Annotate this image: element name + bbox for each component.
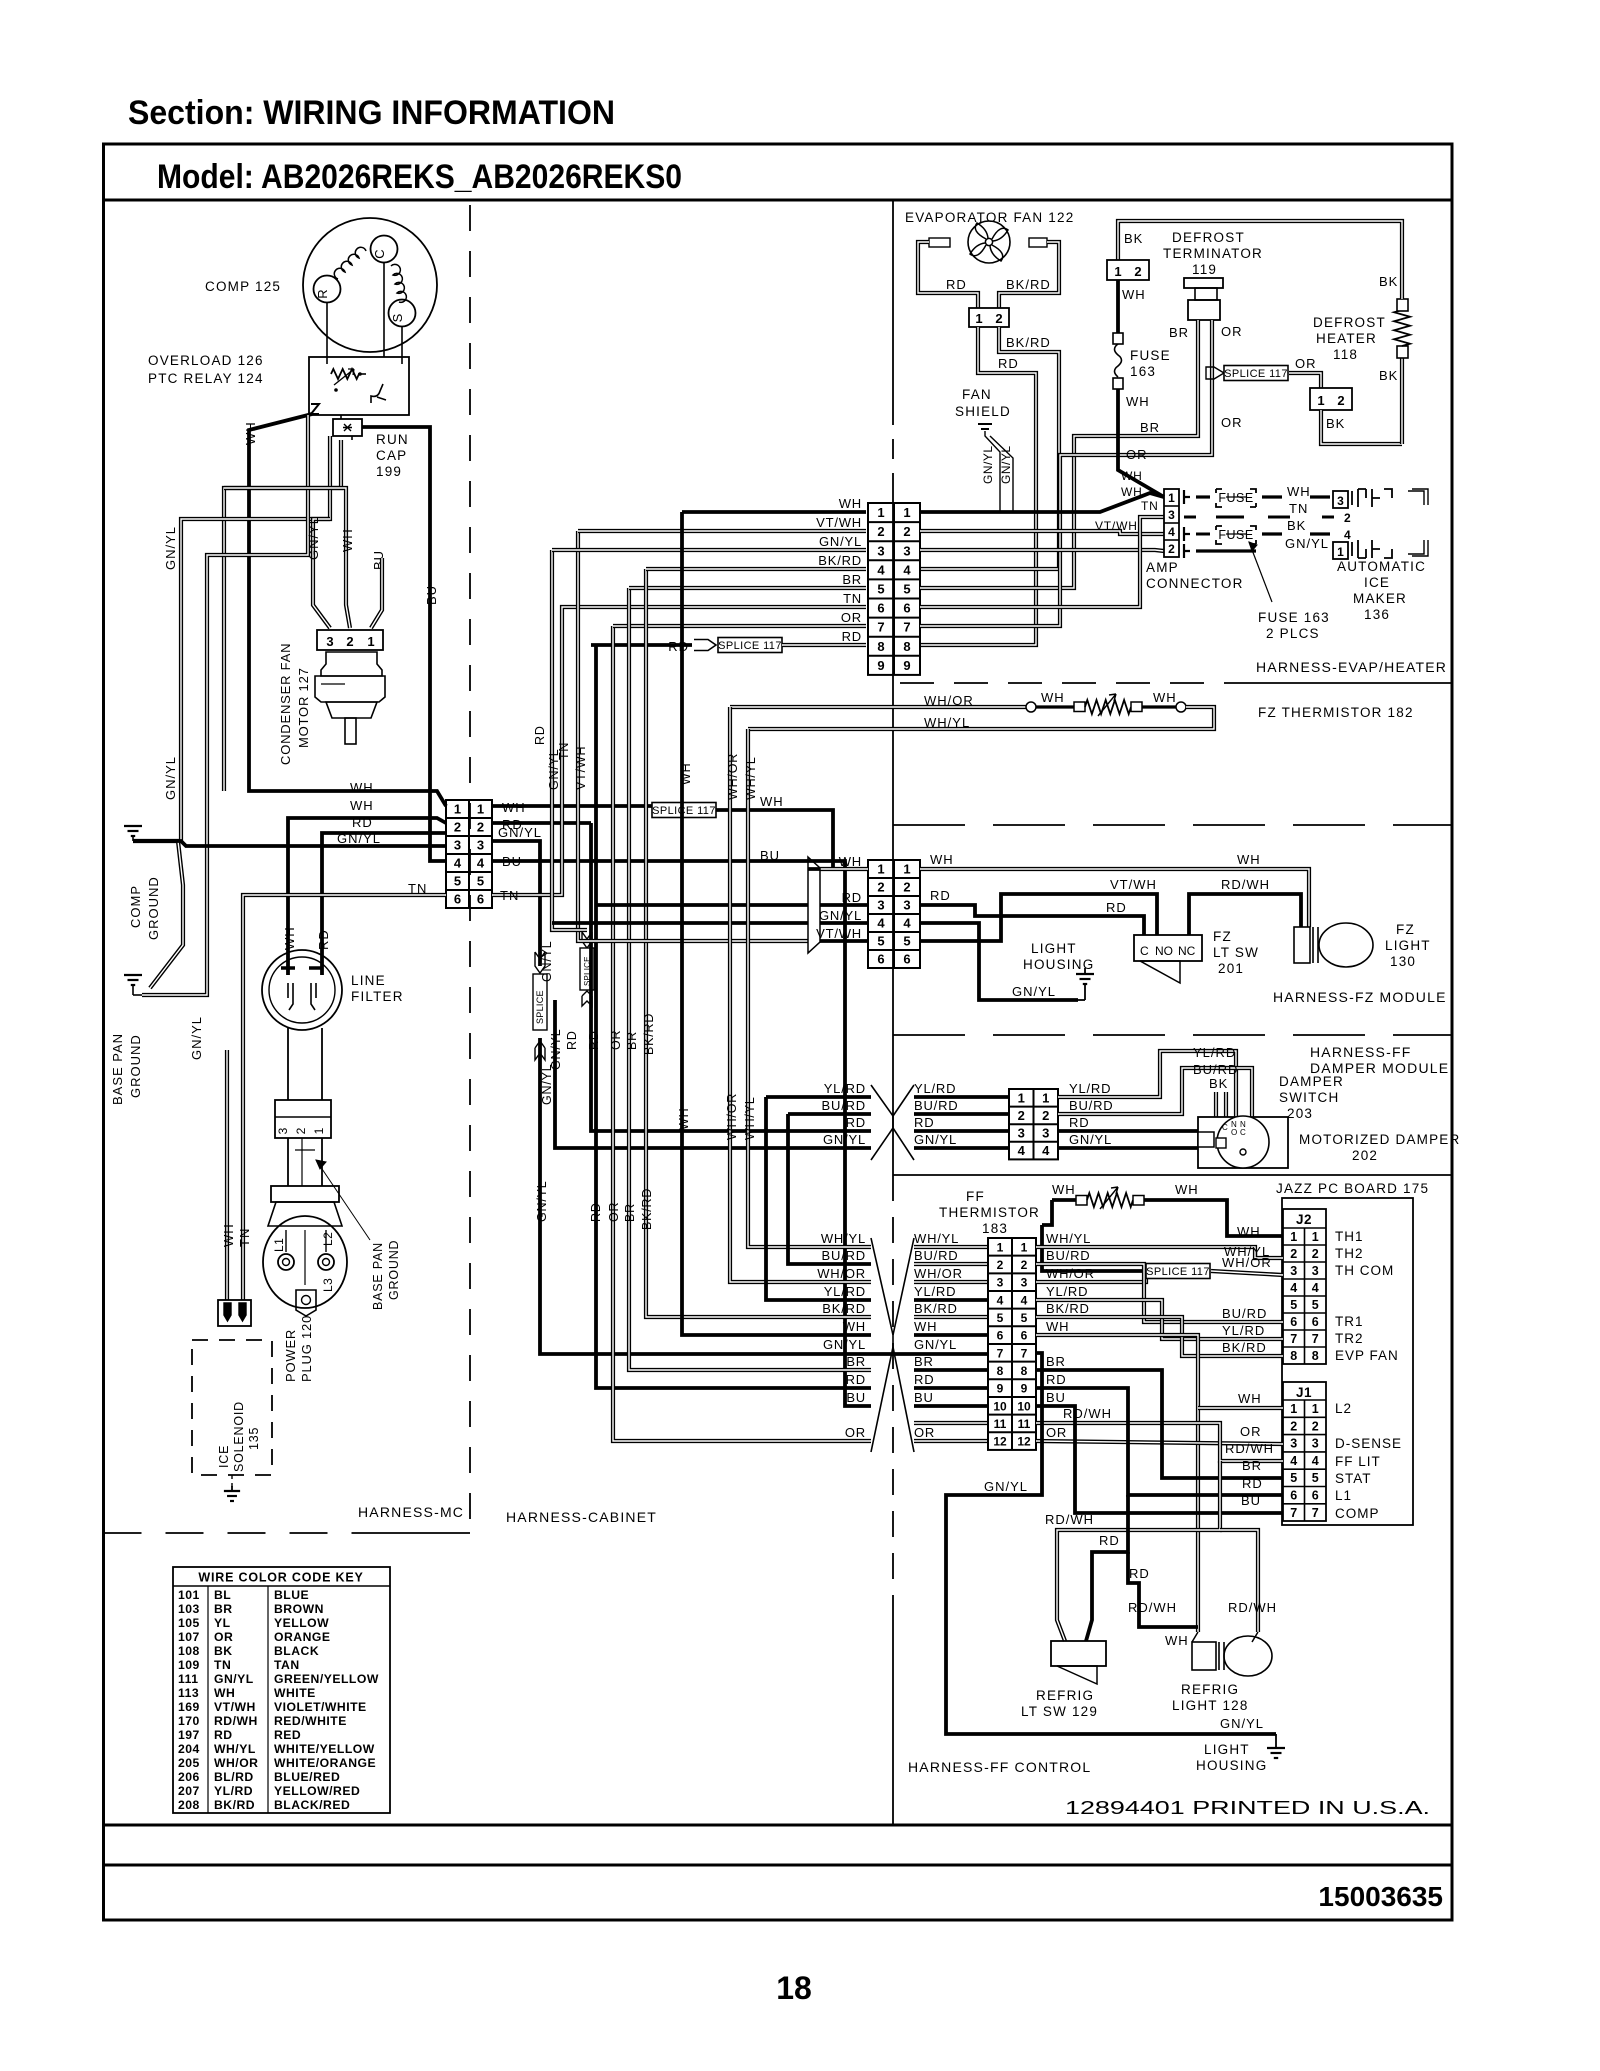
svg-text:1: 1 (903, 862, 910, 877)
svg-text:8: 8 (1021, 1364, 1028, 1378)
pennant into splice 117 (OR) (1206, 367, 1224, 379)
wire VT/WH 9-pin row2 down to FZ funnel (578, 531, 808, 941)
svg-text:108: 108 (178, 1644, 200, 1658)
svg-text:7: 7 (1312, 1506, 1319, 1520)
power plug 120 connector 3 2 1 (275, 1100, 331, 1138)
svg-text:202: 202 (1352, 1148, 1378, 1163)
svg-text:BR: BR (1242, 1458, 1262, 1473)
wire YL/RD 12-4 to J2 pin7 TR2 (1036, 1300, 1283, 1339)
svg-text:5: 5 (877, 581, 884, 596)
svg-text:YL/RD: YL/RD (914, 1284, 956, 1299)
wire TN 6-pin pin6 to 9-pin row6 (492, 607, 866, 895)
svg-text:7: 7 (903, 620, 910, 635)
wire RD refrig branch (1128, 1552, 1198, 1627)
svg-text:4: 4 (877, 562, 885, 577)
svg-text:8: 8 (997, 1364, 1004, 1378)
svg-text:5: 5 (477, 874, 484, 889)
wire BU/RD 12-2 to J2 pin6 TR1 (1036, 1264, 1283, 1322)
wire GN/YL fz pin4 to light housing ground (920, 923, 1078, 1000)
wire VT/WH fz pin5 to switch (920, 894, 1157, 941)
svg-text:GROUND: GROUND (146, 876, 161, 940)
svg-text:8: 8 (1312, 1349, 1319, 1363)
svg-text:4: 4 (877, 916, 885, 931)
svg-text:BK/RD: BK/RD (642, 1013, 656, 1055)
svg-text:L1: L1 (272, 1238, 286, 1252)
svg-text:5: 5 (903, 934, 910, 949)
svg-text:BLUE/RED: BLUE/RED (274, 1770, 340, 1784)
svg-text:OVERLOAD 126: OVERLOAD 126 (148, 353, 264, 368)
line filter (262, 950, 342, 1030)
svg-text:109: 109 (178, 1658, 200, 1672)
svg-text:S: S (390, 313, 405, 322)
svg-text:GROUND: GROUND (387, 1240, 401, 1300)
svg-text:MAKER: MAKER (1353, 591, 1407, 606)
svg-text:SPLICE 117: SPLICE 117 (718, 640, 782, 652)
svg-text:2: 2 (1312, 1419, 1319, 1433)
svg-text:3: 3 (1042, 1126, 1049, 1141)
svg-text:2: 2 (995, 311, 1002, 326)
svg-text:BR: BR (1046, 1354, 1066, 1369)
svg-text:WH: WH (760, 794, 784, 809)
svg-text:2 PLCS: 2 PLCS (1266, 626, 1320, 641)
svg-text:18: 18 (776, 1970, 812, 2006)
svg-text:4: 4 (1021, 1293, 1028, 1307)
svg-text:O: O (1231, 1128, 1237, 1137)
svg-text:2: 2 (903, 880, 910, 895)
svg-text:BU/RD: BU/RD (1193, 1062, 1238, 1077)
svg-text:5: 5 (1312, 1298, 1319, 1312)
wire GN/YL 6-pin pin3 right to splice (492, 841, 540, 966)
svg-text:BLACK/RED: BLACK/RED (274, 1798, 350, 1812)
wire RD 12-9 to J1 pin6 L1 (1036, 1388, 1283, 1495)
svg-text:BU/RD: BU/RD (822, 1248, 866, 1263)
svg-text:TN: TN (214, 1658, 231, 1672)
svg-text:WH: WH (677, 1108, 691, 1130)
svg-text:WH/OR: WH/OR (817, 1266, 866, 1281)
svg-text:FZ THERMISTOR 182: FZ THERMISTOR 182 (1258, 705, 1414, 720)
svg-text:WH: WH (1153, 690, 1177, 705)
svg-text:3: 3 (1018, 1126, 1025, 1141)
svg-text:WH: WH (839, 496, 862, 511)
svg-text:203: 203 (1287, 1106, 1313, 1121)
svg-text:RD: RD (1129, 1566, 1150, 1581)
svg-text:GN/YL: GN/YL (535, 1180, 549, 1222)
svg-text:2: 2 (346, 634, 353, 649)
svg-text:YL/RD: YL/RD (914, 1081, 956, 1096)
svg-text:BK: BK (214, 1644, 233, 1658)
svg-text:GROUND: GROUND (128, 1034, 143, 1098)
svg-text:3: 3 (1290, 1264, 1297, 1278)
svg-text:BK/RD: BK/RD (818, 553, 862, 568)
wire run-cap left to bundle (224, 440, 341, 791)
svg-text:3: 3 (1312, 1264, 1319, 1278)
svg-text:THERMISTOR: THERMISTOR (939, 1205, 1040, 1220)
svg-text:NC: NC (1178, 944, 1196, 958)
svg-text:RD: RD (565, 1030, 579, 1050)
svg-text:SPLICE 117: SPLICE 117 (1224, 368, 1288, 380)
svg-text:WH: WH (214, 1686, 235, 1700)
svg-text:WH: WH (1052, 1182, 1076, 1197)
FZ light switch C NO NC (1134, 935, 1202, 961)
svg-text:DEFROST: DEFROST (1313, 315, 1386, 330)
svg-text:RD: RD (1099, 1533, 1120, 1548)
AMP row 4: GN/YL to ice maker 1 (1184, 544, 1190, 558)
wire BR terminator to 9-pin row5 (920, 320, 1198, 588)
svg-text:BR: BR (846, 1354, 866, 1369)
base pan ground (132, 974, 134, 976)
svg-text:SWITCH: SWITCH (1279, 1090, 1339, 1105)
wire RD/WH switch NC to FZ light (1189, 894, 1301, 935)
svg-text:8: 8 (1290, 1349, 1297, 1363)
svg-text:6: 6 (1312, 1315, 1319, 1329)
wire RD 6-pin pin2 right (492, 821, 591, 825)
svg-text:WH: WH (1165, 1633, 1189, 1648)
svg-text:J2: J2 (1296, 1212, 1312, 1227)
fuse 1 2 connector (top) (1107, 260, 1149, 280)
svg-text:6: 6 (903, 952, 910, 967)
svg-text:1: 1 (1114, 264, 1121, 279)
wire GN/YL to condenser pin3 (313, 519, 330, 628)
svg-text:FZ: FZ (1396, 922, 1415, 937)
svg-text:RD: RD (998, 356, 1019, 371)
svg-text:GN/YL: GN/YL (819, 908, 862, 923)
svg-text:ORANGE: ORANGE (274, 1630, 331, 1644)
splice pennants + SPLICE boxes on GN/YL (535, 952, 545, 973)
svg-text:WH: WH (502, 800, 526, 815)
svg-text:BK: BK (1209, 1076, 1228, 1091)
svg-text:4: 4 (1290, 1281, 1297, 1295)
wire GN/YL comp-ground to 6-pin pin3 (133, 841, 446, 846)
svg-text:113: 113 (178, 1686, 199, 1700)
svg-text:C: C (1240, 1128, 1246, 1137)
wire GN/YL 12-7 down to light housing ground (946, 1353, 1276, 1734)
svg-text:2: 2 (1018, 1108, 1025, 1123)
svg-text:COMP: COMP (1335, 1506, 1380, 1521)
svg-text:3: 3 (903, 543, 910, 558)
svg-text:GN/YL: GN/YL (306, 516, 321, 560)
svg-text:C: C (1140, 944, 1149, 958)
svg-text:6: 6 (877, 952, 884, 967)
svg-text:SPLICE: SPLICE (535, 990, 545, 1024)
svg-text:204: 204 (178, 1742, 200, 1756)
svg-text:111: 111 (178, 1672, 199, 1686)
svg-text:DEFROST: DEFROST (1172, 230, 1245, 245)
svg-text:LIGHT 128: LIGHT 128 (1172, 1698, 1249, 1713)
svg-text:LT SW 129: LT SW 129 (1021, 1704, 1098, 1719)
wire WH to condenser pin2 (224, 488, 350, 628)
svg-text:L1: L1 (1335, 1488, 1352, 1503)
svg-text:WIRE COLOR CODE KEY: WIRE COLOR CODE KEY (198, 1571, 363, 1585)
svg-text:GN/YL: GN/YL (214, 1672, 254, 1686)
svg-text:WH: WH (679, 763, 693, 785)
svg-text:PLUG 120: PLUG 120 (299, 1315, 314, 1382)
svg-text:3: 3 (877, 543, 884, 558)
svg-text:FUSE: FUSE (1218, 528, 1253, 542)
svg-text:WH: WH (1126, 394, 1150, 409)
svg-text:SPLICE 117: SPLICE 117 (652, 805, 716, 817)
wire WH thermistor to J2 pin1 (1144, 1200, 1283, 1236)
svg-text:ICE: ICE (1364, 575, 1390, 590)
svg-text:RD/WH: RD/WH (1221, 877, 1270, 892)
svg-text:3: 3 (276, 1127, 290, 1134)
svg-text:Section: WIRING INFORMATION: Section: WIRING INFORMATION (128, 94, 615, 132)
6-pin connector FZ module (868, 860, 920, 968)
svg-text:4: 4 (1018, 1143, 1026, 1158)
wire WH to plug connector (225, 1050, 229, 1300)
wire BU from run cap down to 6-pin pin4 (362, 427, 446, 861)
svg-text:3: 3 (997, 1276, 1004, 1290)
svg-text:BU: BU (914, 1390, 934, 1405)
svg-text:CAP: CAP (376, 448, 407, 463)
wire BU/RD damper to 12-pin row2 (788, 1112, 871, 1116)
svg-text:VT/WH: VT/WH (816, 515, 862, 530)
svg-text:BK/RD: BK/RD (214, 1798, 255, 1812)
svg-text:OR: OR (1240, 1424, 1262, 1439)
svg-text:LIGHT: LIGHT (1385, 938, 1431, 953)
wire BR 9-pin row5 down to 12-pin row8 (629, 588, 871, 1370)
svg-text:BK: BK (1379, 368, 1398, 383)
svg-text:VT/WH: VT/WH (214, 1700, 256, 1714)
svg-text:WH/OR: WH/OR (1046, 1266, 1095, 1281)
svg-text:1: 1 (903, 505, 910, 520)
power plug 120 body (271, 1186, 339, 1202)
svg-text:RD: RD (914, 1115, 934, 1130)
svg-text:RD/WH: RD/WH (1045, 1512, 1094, 1527)
svg-text:WH: WH (282, 926, 297, 950)
svg-text:TERMINATOR: TERMINATOR (1163, 246, 1263, 261)
svg-text:RD: RD (946, 277, 967, 292)
svg-text:YL/RD: YL/RD (214, 1784, 253, 1798)
svg-text:HARNESS-CABINET: HARNESS-CABINET (506, 1509, 657, 1525)
wire GN/YL 4-pin pin4 (1058, 1146, 1198, 1150)
svg-text:CONDENSER FAN: CONDENSER FAN (278, 643, 293, 765)
svg-text:RD: RD (589, 1202, 603, 1222)
svg-text:163: 163 (1130, 364, 1156, 379)
wire RD/WH to refrig light (1220, 1530, 1258, 1632)
2-pin connector (218, 1300, 251, 1326)
svg-text:LIGHT: LIGHT (1031, 941, 1077, 956)
svg-text:119: 119 (1192, 262, 1217, 277)
solenoid ground (231, 1475, 233, 1490)
svg-text:RD: RD (1106, 900, 1127, 915)
svg-text:BASE PAN: BASE PAN (371, 1242, 385, 1310)
svg-text:TR2: TR2 (1335, 1331, 1364, 1346)
svg-text:AUTOMATIC: AUTOMATIC (1337, 559, 1426, 574)
svg-text:GN/YL: GN/YL (1069, 1132, 1112, 1147)
wire BK/RD 12-5 to J2 pin8 EVP FAN (1036, 1317, 1283, 1356)
svg-text:3: 3 (477, 838, 484, 853)
wire WH 6-pin pin1 to splice and FZ module (492, 804, 652, 808)
svg-text:VIOLET/WHITE: VIOLET/WHITE (274, 1700, 367, 1714)
wire RD 4-pin pin3 to motorized damper (1058, 1129, 1198, 1133)
svg-text:FILTER: FILTER (351, 989, 404, 1004)
svg-text:103: 103 (178, 1602, 200, 1616)
svg-text:BK/RD: BK/RD (1006, 277, 1051, 292)
svg-text:VT/WH: VT/WH (1095, 519, 1138, 533)
svg-text:9: 9 (903, 658, 910, 673)
wire WH through fuse 163 to AMP pin1 (1116, 280, 1120, 333)
svg-text:RD/WH: RD/WH (1225, 1441, 1274, 1456)
svg-text:12894401 PRINTED IN U.S.A.: 12894401 PRINTED IN U.S.A. (1065, 1797, 1430, 1818)
svg-text:TH COM: TH COM (1335, 1263, 1394, 1278)
AMP row 3: fuse2 to ice maker 4 (1184, 527, 1190, 541)
svg-text:101: 101 (178, 1588, 200, 1602)
svg-text:RD: RD (914, 1372, 934, 1387)
svg-text:3: 3 (903, 898, 910, 913)
svg-text:6: 6 (477, 892, 484, 907)
svg-text:207: 207 (178, 1784, 200, 1798)
wire BU 6-pin pin4 right down to 12-pin row10 (492, 861, 871, 1406)
svg-text:OR: OR (845, 1425, 866, 1440)
svg-text:AMP: AMP (1146, 560, 1179, 575)
svg-text:JAZZ PC BOARD 175: JAZZ PC BOARD 175 (1276, 1181, 1429, 1196)
svg-text:WH: WH (243, 421, 258, 445)
svg-text:FUSE: FUSE (1130, 348, 1171, 363)
svg-text:7: 7 (1290, 1332, 1297, 1346)
AMP row 2: TN dashes to ice maker 2 (1184, 516, 1196, 519)
wire BK heater top loop (1118, 221, 1402, 299)
svg-text:10: 10 (1017, 1399, 1031, 1413)
svg-text:WH: WH (1121, 469, 1143, 483)
wire color code key table (173, 1567, 390, 1813)
svg-text:PTC RELAY 124: PTC RELAY 124 (148, 371, 264, 386)
svg-text:6: 6 (1312, 1489, 1319, 1503)
wire BR 12-8 to J1 pin5 STAT (1036, 1370, 1283, 1478)
svg-text:5: 5 (1290, 1471, 1297, 1485)
svg-text:11: 11 (994, 1417, 1007, 1431)
fuse 163 symbol (1113, 333, 1123, 344)
svg-text:2: 2 (1290, 1419, 1297, 1433)
svg-text:4: 4 (903, 562, 911, 577)
wire YL/RD damper to 12-pin row4 (766, 1095, 871, 1099)
svg-text:C: C (372, 249, 387, 258)
svg-text:7: 7 (1290, 1506, 1297, 1520)
svg-text:2: 2 (877, 880, 884, 895)
wire OR 12-12 to J1 pin3 D-SENSE (1036, 1441, 1283, 1444)
svg-text:WH: WH (1237, 1224, 1261, 1239)
svg-text:1: 1 (477, 802, 484, 817)
svg-text:Model: AB2026REKS_AB2026REKS0: Model: AB2026REKS_AB2026REKS0 (157, 158, 682, 196)
svg-text:FAN: FAN (962, 387, 992, 402)
wire WH 12-6 to J1 pin1 L2 and refrig light (1036, 1335, 1198, 1632)
svg-text:1: 1 (877, 862, 884, 877)
svg-text:SOLENOID: SOLENOID (232, 1401, 246, 1472)
defrost heater connector 1 2 (1310, 388, 1352, 410)
svg-text:15003635: 15003635 (1318, 1881, 1443, 1912)
svg-text:YL/RD: YL/RD (824, 1081, 866, 1096)
wire YL/RD 4-pin pin1 over to damper switch (1058, 1051, 1236, 1117)
wire WH from relay to 6-pin connector (249, 414, 446, 806)
svg-text:BU: BU (760, 848, 780, 863)
svg-text:BU/RD: BU/RD (914, 1098, 958, 1113)
svg-text:3: 3 (877, 898, 884, 913)
svg-text:130: 130 (1390, 954, 1416, 969)
svg-text:BK/RD: BK/RD (914, 1301, 958, 1316)
svg-text:RD: RD (930, 888, 951, 903)
svg-text:L3: L3 (321, 1278, 335, 1292)
svg-text:6: 6 (454, 892, 461, 907)
wire GN/YL to base pan ground (142, 415, 308, 995)
svg-text:WHITE/ORANGE: WHITE/ORANGE (274, 1756, 376, 1770)
svg-text:6: 6 (1290, 1489, 1297, 1503)
svg-text:3: 3 (1337, 494, 1344, 508)
wire WH fz pin1 to FZ light (920, 869, 1309, 927)
svg-text:RD: RD (1242, 1476, 1263, 1491)
svg-text:YL/RD: YL/RD (1222, 1323, 1265, 1338)
wire BK damper switch (1214, 1092, 1218, 1117)
svg-text:WH/OR: WH/OR (726, 753, 740, 800)
svg-text:7: 7 (997, 1346, 1004, 1360)
svg-text:5: 5 (1290, 1298, 1297, 1312)
svg-text:5: 5 (877, 934, 884, 949)
svg-text:GN/YL: GN/YL (189, 1016, 204, 1060)
svg-text:WH/YL: WH/YL (743, 1096, 757, 1140)
svg-text:L2: L2 (1335, 1401, 1352, 1416)
svg-text:9: 9 (997, 1382, 1004, 1396)
svg-text:TR1: TR1 (1335, 1314, 1364, 1329)
svg-text:BK/RD: BK/RD (1046, 1301, 1090, 1316)
svg-text:LIGHT: LIGHT (1204, 1742, 1250, 1757)
splice 117 on WH (cabinet) (652, 803, 716, 818)
svg-text:4: 4 (477, 856, 485, 871)
wire OR terminator to splice / 9-pin row7 (920, 320, 1212, 626)
svg-text:TN: TN (237, 1228, 252, 1247)
svg-text:POWER: POWER (283, 1329, 298, 1382)
svg-text:BU: BU (1241, 1493, 1261, 1508)
wire WH/YL thermistor down to 12-pin row1 (748, 727, 893, 731)
bundle funnel damper rows (871, 1085, 893, 1160)
wire BU to condenser pin1 (371, 558, 382, 628)
svg-text:3: 3 (1290, 1437, 1297, 1451)
svg-text:1: 1 (975, 311, 982, 326)
svg-text:BU: BU (1046, 1390, 1066, 1405)
svg-text:YL/RD: YL/RD (1046, 1284, 1088, 1299)
wire GN/YL relay to comp ground (181, 436, 330, 841)
svg-text:OR: OR (607, 1202, 621, 1222)
svg-text:2: 2 (1312, 1247, 1319, 1261)
svg-text:BK: BK (1124, 231, 1143, 246)
svg-text:4: 4 (997, 1293, 1004, 1307)
svg-text:COMP: COMP (128, 885, 143, 928)
svg-text:8: 8 (877, 639, 884, 654)
svg-text:1: 1 (367, 634, 374, 649)
svg-text:BU: BU (846, 1390, 866, 1405)
svg-text:BK: BK (1379, 274, 1398, 289)
svg-text:1: 1 (312, 1127, 326, 1134)
svg-text:1: 1 (1312, 1402, 1319, 1416)
svg-text:WH: WH (1121, 485, 1143, 499)
svg-text:4: 4 (1042, 1143, 1050, 1158)
wire TN 6-pin pin6 to plug connector (243, 895, 446, 1300)
svg-text:BLACK: BLACK (274, 1644, 319, 1658)
svg-text:TN: TN (500, 888, 519, 903)
svg-text:1: 1 (1042, 1090, 1049, 1105)
svg-text:105: 105 (178, 1616, 200, 1630)
svg-text:197: 197 (178, 1728, 200, 1742)
svg-text:7: 7 (1021, 1346, 1028, 1360)
svg-text:RED: RED (274, 1728, 301, 1742)
svg-text:OR: OR (609, 1030, 623, 1050)
svg-text:BU/RD: BU/RD (822, 1098, 866, 1113)
svg-text:4: 4 (1168, 525, 1175, 539)
svg-text:FF: FF (966, 1189, 985, 1204)
evap fan connector 1 2 (918, 242, 978, 308)
svg-text:3: 3 (1312, 1437, 1319, 1451)
svg-text:J1: J1 (1296, 1385, 1312, 1400)
wire RD bundle: splice117 arrow to 9-pin row8 and down to damper (591, 823, 871, 1131)
svg-text:LINE: LINE (351, 973, 386, 988)
svg-text:5: 5 (997, 1311, 1004, 1325)
